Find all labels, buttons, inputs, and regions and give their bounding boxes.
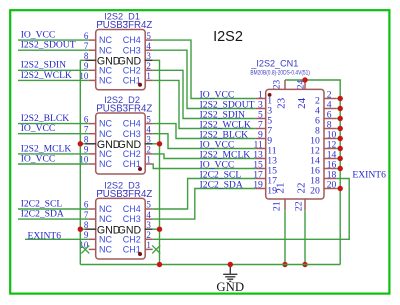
connector CN1 pin 11 stub [256, 148, 267, 150]
svg-text:NC: NC [99, 234, 112, 244]
wire GND to D3 pin 8 [80, 228, 85, 230]
IC _I2S2_D1 pin-1 marker dot [138, 83, 142, 87]
IC _I2S2_D2 pin 5 stub [145, 123, 153, 125]
connector CN1 pin 12 stub [323, 148, 336, 150]
svg-text:20: 20 [327, 179, 337, 190]
svg-text:8: 8 [84, 135, 89, 145]
connector CN1 pin 15 stub [256, 168, 267, 170]
svg-text:9: 9 [84, 230, 89, 240]
wire I2S2_SDOUT to _I2S2_D1 pin 7 [18, 49, 89, 51]
IC _I2S2_D1 pin 8 stub [85, 59, 96, 61]
IC _I2S2_D2 pin 3 stub [145, 143, 153, 145]
svg-text:19: 19 [253, 179, 263, 190]
junction GND at D2 pin 8 [78, 141, 83, 146]
wire net I2S2_WCLK from D1 to CN1 [153, 80, 256, 128]
wire CN1 pin 8 to GND bus [336, 128, 340, 130]
svg-text:7: 7 [84, 41, 89, 51]
IC _I2S2_D1 pin 9 stub [89, 69, 97, 71]
svg-text:8: 8 [84, 220, 89, 230]
svg-text:NC: NC [99, 119, 112, 129]
svg-text:7: 7 [84, 124, 89, 134]
IC _I2S2_D1 pin 2 stub [145, 69, 153, 71]
wire IO_VCC to _I2S2_D2 pin 7 [18, 133, 89, 135]
svg-text:4: 4 [146, 124, 151, 134]
wire net I2C2_SCL from D3 to CN1 [153, 179, 256, 210]
wire net I2S2_SDIN from D1 to CN1 [153, 70, 256, 118]
connector CN1 pin 13 stub [256, 158, 267, 160]
svg-text:I2S2_WCLK: I2S2_WCLK [21, 70, 72, 81]
IC _I2S2_D3 pin 1 stub [145, 248, 153, 250]
svg-text:3: 3 [146, 135, 151, 145]
IC _I2S2_D1 pin 10 stub [89, 79, 97, 81]
ground symbol [223, 265, 237, 282]
svg-text:I2C2_SDA: I2C2_SDA [21, 209, 64, 220]
svg-text:5: 5 [146, 31, 151, 41]
svg-text:CH4: CH4 [123, 204, 141, 214]
IC _I2S2_D2 pin 1 stub [145, 163, 153, 165]
svg-text:7: 7 [84, 210, 89, 220]
connector CN1 pin 6 stub [323, 118, 336, 120]
svg-text:NC: NC [99, 204, 112, 214]
wire net IO_VCC from D1 to CN1 [153, 40, 256, 98]
connector CN1 pin 4 stub [323, 108, 336, 110]
IC _I2S2_D2 pin 10 stub [89, 163, 97, 165]
IC _I2S2_D1 pin 4 stub [145, 49, 153, 51]
junction CN1 pin 4 on bus [338, 106, 343, 111]
svg-text:GND: GND [216, 280, 244, 294]
svg-text:3: 3 [146, 51, 151, 61]
svg-text:4: 4 [146, 41, 151, 51]
junction GND at D3 pin 3 [157, 227, 162, 232]
wire CN1 pin 21 to GND rail [284, 210, 286, 264]
junction CN1 pin 16 on bus [338, 166, 343, 171]
svg-text:EXINT6: EXINT6 [352, 170, 386, 181]
wire GND top pins 23/24 to bus [285, 80, 340, 99]
IC _I2S2_D1 pin 5 stub [145, 39, 153, 41]
wire IO_VCC to _I2S2_D1 pin 6 [18, 39, 89, 41]
junction CN1 pin 20 on bus [338, 186, 343, 191]
svg-text:3: 3 [146, 220, 151, 230]
IC _I2S2_D1 body PUSB3FR4Z [96, 30, 146, 90]
connector CN1 pin 23 stub [284, 80, 286, 90]
wire GND left vertical rail [79, 60, 81, 264]
svg-text:_I2S2_CN1: _I2S2_CN1 [250, 59, 298, 69]
connector CN1 pin 24 stub [304, 80, 306, 90]
svg-text:CH2: CH2 [123, 149, 141, 159]
svg-text:I2S2: I2S2 [213, 29, 243, 45]
wire I2S2_SDIN to _I2S2_D1 pin 9 [18, 69, 89, 71]
junction GND at D3 pin 8 [78, 227, 83, 232]
junction CN1 pin 14 on bus [338, 156, 343, 161]
wire I2S2_WCLK to _I2S2_D1 pin 10 [18, 79, 89, 81]
IC _I2S2_D3 pin 8 stub [85, 228, 96, 230]
svg-text:NC: NC [99, 76, 112, 86]
connector CN1 pin 14 stub [323, 158, 336, 160]
connector CN1 pin 10 stub [323, 138, 336, 140]
svg-text:NC: NC [99, 129, 112, 139]
svg-text:2: 2 [146, 61, 151, 71]
svg-text:I2C2_SDA: I2C2_SDA [200, 180, 243, 191]
svg-text:4: 4 [146, 210, 151, 220]
IC _I2S2_D3 pin 10 stub [89, 248, 97, 250]
junction CN1 pin 10 on bus [338, 136, 343, 141]
IC _I2S2_D3 pin 6 stub [89, 208, 97, 210]
svg-text:NC: NC [99, 149, 112, 159]
connector CN1 pin 20 stub [323, 188, 336, 190]
svg-text:NC: NC [99, 245, 112, 255]
IC _I2S2_D2 pin 6 stub [89, 123, 97, 125]
wire net I2C2_SDA from D3 to CN1 [153, 189, 256, 220]
svg-text:2: 2 [146, 145, 151, 155]
svg-text:6: 6 [84, 114, 89, 124]
svg-text:1: 1 [146, 240, 151, 250]
connector CN1 pin 18 stub [323, 178, 336, 180]
connector CN1 pin 22 stub [304, 198, 306, 210]
junction GND right vertical at rail [157, 262, 162, 267]
svg-text:CH2: CH2 [123, 234, 141, 244]
svg-text:CH4: CH4 [123, 35, 141, 45]
IC _I2S2_D1 pin 1 stub [145, 79, 153, 81]
connector CN1 pin 2 stub [323, 98, 336, 100]
svg-text:CH3: CH3 [123, 129, 141, 139]
junction CN1 pin 8 on bus [338, 126, 343, 131]
svg-text:2: 2 [146, 230, 151, 240]
IC _I2S2_D2 body PUSB3FR4Z [96, 113, 146, 174]
wire I2C2_SDA to _I2S2_D3 pin 7 [18, 218, 89, 220]
junction GND at D2 pin 3 [157, 141, 162, 146]
svg-text:23: 23 [276, 97, 288, 109]
svg-text:CH1: CH1 [123, 159, 141, 169]
connector CN1 pin 21 stub [284, 198, 286, 210]
wire CN1 pin 14 to GND bus [336, 158, 340, 160]
junction pin 21 at rail [282, 262, 287, 267]
connector CN1 body BM20B-20DS [266, 89, 324, 199]
junction CN1 pin 2 on bus [338, 96, 343, 101]
svg-text:CH2: CH2 [123, 65, 141, 75]
svg-text:NC: NC [99, 159, 112, 169]
connector CN1 pin 16 stub [323, 168, 336, 170]
wire GND to D2 pin 3 [153, 143, 160, 145]
svg-text:NC: NC [99, 45, 112, 55]
svg-text:IO_VCC: IO_VCC [21, 153, 56, 164]
IC _I2S2_D2 pin 4 stub [145, 133, 153, 135]
wire GND to D2 pin 8 [80, 143, 85, 145]
junction ground symbol at rail [228, 262, 233, 267]
IC _I2S2_D3 pin 3 stub [145, 228, 153, 230]
wire CN1 pin 22 to GND rail [304, 210, 306, 264]
svg-text:CH1: CH1 [123, 76, 141, 86]
no-connect X on _I2S2_D3 pin 10 [81, 245, 89, 253]
wire GND right vertical from D1 pin 3 [153, 60, 160, 264]
wire CN1 pin 4 to GND bus [336, 108, 340, 110]
svg-text:24: 24 [296, 97, 308, 109]
IC _I2S2_D2 pin-1 marker dot [138, 167, 142, 171]
svg-text:8: 8 [84, 51, 89, 61]
IC _I2S2_D3 pin 7 stub [89, 218, 97, 220]
svg-text:1: 1 [146, 155, 151, 165]
svg-text:5: 5 [146, 114, 151, 124]
wire GND to D3 pin 3 [153, 228, 160, 230]
IC _I2S2_D3 pin 9 stub [89, 238, 97, 240]
svg-text:CH3: CH3 [123, 45, 141, 55]
wire net IO_VCC from D2 to CN1 [153, 134, 256, 149]
wire net I2S2_SDOUT from D1 to CN1 [153, 50, 256, 108]
svg-text:IO_VCC: IO_VCC [21, 123, 56, 134]
IC _I2S2_D2 pin 8 stub [85, 143, 96, 145]
IC _I2S2_D1 pin 7 stub [89, 49, 97, 51]
wire CN1 pin 12 to GND bus [336, 148, 340, 150]
svg-text:21: 21 [275, 183, 287, 194]
connector CN1 pin 8 stub [323, 128, 336, 130]
svg-text:CH3: CH3 [123, 214, 141, 224]
junction at pin 24 top [302, 77, 307, 82]
IC _I2S2_D1 pin 6 stub [89, 39, 97, 41]
wire CN1 pin 2 to GND bus [336, 98, 340, 100]
svg-text:CH4: CH4 [123, 119, 141, 129]
svg-text:1: 1 [146, 71, 151, 81]
IC _I2S2_D3 pin 5 stub [145, 208, 153, 210]
svg-text:NC: NC [99, 35, 112, 45]
IC _I2S2_D3 pin 2 stub [145, 238, 153, 240]
IC _I2S2_D2 pin 7 stub [89, 133, 97, 135]
wire net I2S2_BLCK from D2 to CN1 [153, 124, 256, 139]
junction pin 22 at rail [302, 262, 307, 267]
junction CN1 pin 12 on bus [338, 146, 343, 151]
IC _I2S2_D2 pin 2 stub [145, 153, 153, 155]
wire I2S2_MCLK to _I2S2_D2 pin 9 [18, 153, 89, 155]
wire I2S2_BLCK to _I2S2_D2 pin 6 [18, 123, 89, 125]
connector CN1 pin 17 stub [256, 178, 267, 180]
wire net EXINT6 from D3 CH2 to CN1 pin 18 [153, 179, 350, 240]
wire GND left vertical to D1 pin 8 [80, 59, 85, 61]
svg-text:22: 22 [294, 201, 305, 211]
wire GND bus right of CN1 [339, 99, 341, 265]
wire CN1 pin 10 to GND bus [336, 138, 340, 140]
wire IO_VCC to _I2S2_D2 pin 10 [18, 163, 89, 165]
wire GND bottom rail [80, 264, 340, 266]
IC _I2S2_D3 pin 4 stub [145, 218, 153, 220]
svg-text:I2S2_SDOUT: I2S2_SDOUT [21, 40, 76, 51]
svg-text:CH1: CH1 [123, 245, 141, 255]
svg-text:23: 23 [271, 80, 281, 90]
connector CN1 pin 9 stub [256, 138, 267, 140]
IC _I2S2_D3 body PUSB3FR4Z [96, 198, 146, 259]
wire CN1 pin 20 to GND bus [336, 188, 340, 190]
connector CN1 pin 3 stub [256, 108, 267, 110]
wire I2C2_SCL to _I2S2_D3 pin 6 [18, 208, 89, 210]
wire net I2S2_MCLK from D2 to CN1 [153, 154, 256, 159]
svg-text:BM20B(0.8)-20DS-0.4V(51): BM20B(0.8)-20DS-0.4V(51) [250, 69, 310, 76]
svg-text:5: 5 [146, 200, 151, 210]
svg-text:9: 9 [84, 145, 89, 155]
svg-text:EXINT6: EXINT6 [28, 230, 62, 241]
connector CN1 pin 5 stub [256, 118, 267, 120]
wire EXINT6 to _I2S2_D3 pin 9 [25, 238, 89, 240]
connector CN1 pin 19 stub [256, 188, 267, 190]
svg-text:6: 6 [84, 31, 89, 41]
svg-text:NC: NC [99, 214, 112, 224]
svg-text:NC: NC [99, 65, 112, 75]
wire net IO_VCC from D2 to CN1 [153, 164, 256, 169]
IC _I2S2_D1 pin 3 stub [145, 59, 153, 61]
svg-text:6: 6 [84, 200, 89, 210]
svg-text:20: 20 [310, 186, 320, 197]
svg-text:9: 9 [84, 61, 89, 71]
no-connect X on _I2S2_D3 pin 1 [152, 245, 160, 253]
connector CN1 pin 1 stub [256, 98, 267, 100]
wire CN1 pin 6 to GND bus [336, 118, 340, 120]
wire CN1 pin 16 to GND bus [336, 168, 340, 170]
connector CN1 pin 7 stub [256, 128, 267, 130]
svg-text:22: 22 [295, 183, 307, 194]
IC _I2S2_D2 pin 9 stub [89, 153, 97, 155]
junction CN1 pin 6 on bus [338, 116, 343, 121]
IC _I2S2_D3 pin-1 marker dot [138, 252, 142, 256]
connector CN1 pin-1 marker dot [268, 93, 272, 97]
svg-text:21: 21 [272, 201, 283, 211]
